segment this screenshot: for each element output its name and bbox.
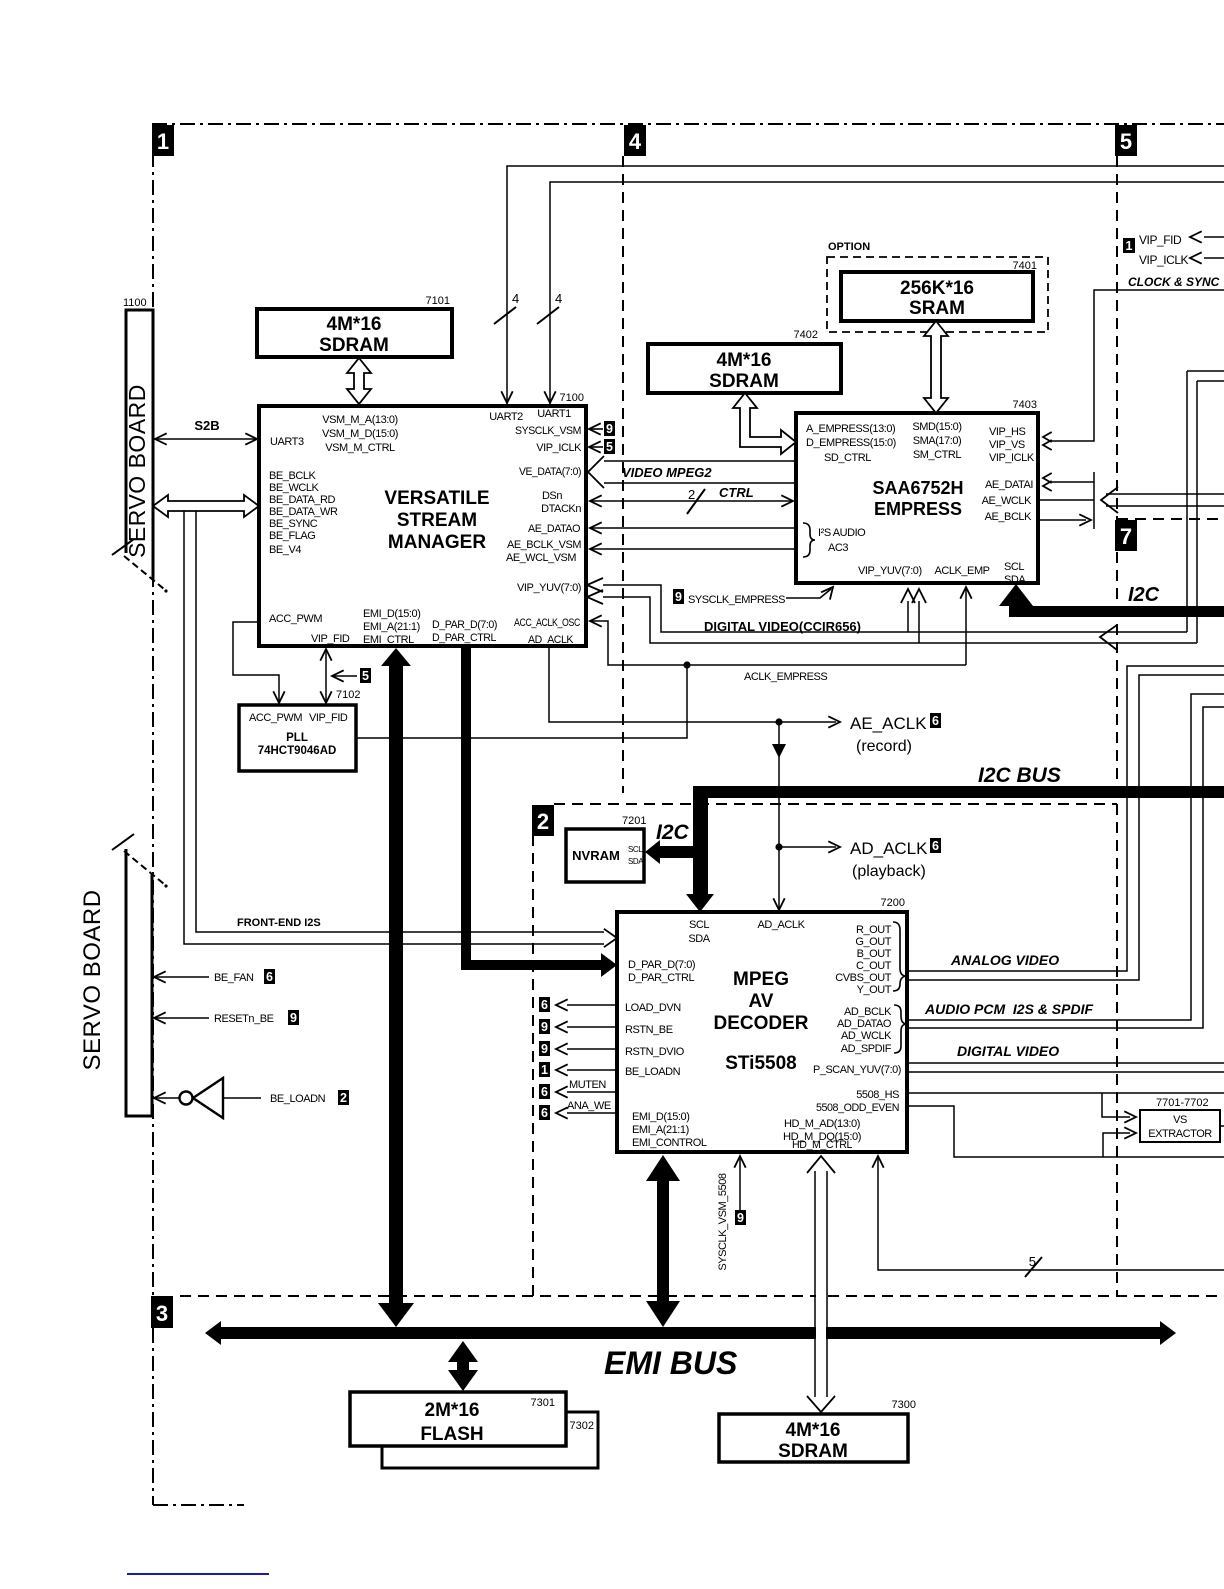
svg-text:4: 4: [555, 291, 562, 306]
wire AE_DATAO: [592, 527, 796, 529]
sram U7401 256K*16: [841, 272, 1033, 321]
bus D_PAR VSM to MPEG: [461, 646, 617, 977]
ref 1 box VIP_FID: [1123, 238, 1135, 253]
sdram U7101 4M*16: [257, 309, 452, 357]
svg-text:1: 1: [541, 1063, 548, 1077]
svg-text:AE_WCL_VSM: AE_WCL_VSM: [506, 552, 576, 564]
section divider dashed x=1117: [1116, 156, 1118, 1296]
wire VIP_YUV lower (digital video): [603, 597, 1197, 643]
svg-text:VIP_ICLK: VIP_ICLK: [1139, 253, 1189, 267]
svg-text:VERSATILE: VERSATILE: [384, 488, 489, 509]
svg-text:BE_FLAG: BE_FLAG: [269, 530, 315, 542]
servo board lower break dot: [164, 884, 167, 887]
svg-text:4M*16: 4M*16: [327, 314, 382, 335]
svg-text:SDA: SDA: [1004, 574, 1026, 586]
svg-text:1100: 1100: [123, 297, 147, 309]
wire MUTEN ref 6 y=1092: [567, 1091, 617, 1093]
svg-text:5508_ODD_EVEN: 5508_ODD_EVEN: [816, 1102, 899, 1114]
wire up to ACLK_EMP pin: [965, 589, 967, 665]
svg-text:VE_DATA(7:0): VE_DATA(7:0): [519, 466, 581, 478]
flash U7302: [382, 1412, 598, 1468]
svg-text:SCL: SCL: [1004, 561, 1024, 573]
wire SYSCLK_VSM_5508 ref 9: [739, 1158, 741, 1211]
svg-text:AE_WCLK: AE_WCLK: [982, 495, 1033, 507]
bus I2C BUS: [694, 786, 1224, 798]
svg-text:AD_WCLK: AD_WCLK: [841, 1030, 892, 1042]
wire analog video 2: [907, 675, 1224, 980]
svg-text:I2C BUS: I2C BUS: [978, 764, 1061, 787]
svg-text:DTACKn: DTACKn: [541, 503, 581, 515]
svg-text:SYSCLK_EMPRESS: SYSCLK_EMPRESS: [688, 594, 785, 606]
wire SAA VIP_YUV tap upper: [907, 601, 909, 632]
svg-text:7401: 7401: [1013, 260, 1037, 272]
svg-text:5: 5: [362, 669, 369, 683]
svg-text:D_PAR_CTRL: D_PAR_CTRL: [628, 972, 695, 984]
bus EMI MPEG to EMI BUS: [646, 1155, 680, 1327]
svg-text:D_PAR_D(7:0): D_PAR_D(7:0): [432, 619, 497, 631]
svg-text:9: 9: [606, 422, 613, 436]
brace analog outs: [893, 922, 906, 991]
svg-text:VIP_FID: VIP_FID: [311, 633, 350, 645]
svg-text:VIP_ICLK: VIP_ICLK: [989, 452, 1035, 464]
wire PLL to ACLK_EMPRESS: [356, 665, 687, 738]
SAA pin labels: [806, 421, 1035, 586]
wire AD_ACLK (playback): [779, 846, 836, 848]
svg-text:9: 9: [737, 1211, 744, 1225]
svg-text:BE_V4: BE_V4: [269, 544, 301, 556]
svg-text:(playback): (playback): [852, 863, 926, 880]
wires digital video out: [907, 1062, 1224, 1064]
svg-text:5508_HS: 5508_HS: [856, 1089, 899, 1101]
svg-text:SYSCLK_VSM: SYSCLK_VSM: [515, 425, 581, 437]
wire ACC_ACLK_OSC / ACLK_EMPRESS: [592, 621, 966, 665]
svg-text:VIP_HS: VIP_HS: [989, 426, 1026, 438]
svg-text:DECODER: DECODER: [713, 1013, 808, 1034]
section 7 top dashed boundary: [1117, 518, 1224, 520]
svg-text:ANALOG VIDEO: ANALOG VIDEO: [950, 952, 1059, 968]
svg-text:AUDIO PCM I2S & SPDIF: AUDIO PCM I2S & SPDIF: [924, 1001, 1093, 1017]
svg-text:D_PAR_CTRL: D_PAR_CTRL: [432, 632, 496, 644]
wire UART1 to top edge: [550, 182, 1224, 404]
block U7100 Versatile Stream Manager: [259, 406, 586, 646]
svg-text:HD_M_CTRL: HD_M_CTRL: [792, 1139, 852, 1151]
svg-text:C_OUT: C_OUT: [856, 960, 892, 972]
svg-text:SAA6752H: SAA6752H: [872, 478, 963, 498]
svg-text:7101: 7101: [426, 295, 450, 307]
svg-text:SMA(17:0): SMA(17:0): [913, 435, 962, 447]
svg-text:3: 3: [156, 1301, 168, 1326]
svg-text:ACLK_EMP: ACLK_EMP: [934, 565, 989, 577]
svg-text:SDA: SDA: [628, 857, 644, 866]
svg-text:MANAGER: MANAGER: [388, 532, 486, 553]
wire VIP_FID VSM-PLL: [325, 650, 327, 701]
svg-text:SYSCLK_VSM_5508: SYSCLK_VSM_5508: [717, 1173, 729, 1271]
wire AE_BCLK: [1038, 519, 1086, 521]
svg-text:SD_CTRL: SD_CTRL: [824, 452, 871, 464]
bus I2C to right edge: [1013, 606, 1224, 617]
section label 5: [1115, 125, 1137, 156]
svg-text:BE_LOADN: BE_LOADN: [625, 1066, 681, 1078]
wire AD_ACLK vertical: [778, 722, 780, 908]
wire mpeg ctl ref 9 y=1049: [567, 1048, 617, 1050]
wire AE_ACLK (record): [779, 721, 836, 723]
wire 5508_ODD_EVEN to VS extractor: [907, 1106, 1224, 1157]
svg-text:BE_DATA_WR: BE_DATA_WR: [269, 506, 338, 518]
servo board connector lower: [79, 849, 152, 1116]
svg-text:LOAD_DVN: LOAD_DVN: [625, 1002, 681, 1014]
arrowhead AD_ACLK into MPEG: [773, 898, 784, 910]
svg-text:6: 6: [266, 970, 273, 984]
svg-text:6: 6: [932, 714, 939, 728]
svg-text:PLL: PLL: [286, 732, 308, 744]
wire ANA_WE ref 6 y=1113: [567, 1112, 617, 1114]
wire ACC_PWM to PLL: [233, 622, 279, 701]
wire digital video up to right edge lower: [1196, 381, 1198, 643]
servo board upper break mark dashed: [124, 556, 164, 589]
svg-text:EMI_A(21:1): EMI_A(21:1): [363, 621, 420, 633]
wire mpeg ctl ref 9 y=1027: [567, 1026, 617, 1028]
svg-text:74HCT9046AD: 74HCT9046AD: [258, 745, 337, 757]
svg-text:5: 5: [1029, 1254, 1036, 1269]
svg-text:1: 1: [157, 129, 169, 154]
svg-text:6: 6: [932, 839, 939, 853]
wire audio pcm 2: [907, 707, 1224, 1028]
wire AD_ACLK from VSM: [549, 648, 777, 722]
section 3 top dashed boundary: [180, 1295, 1224, 1297]
svg-text:7201: 7201: [622, 815, 646, 827]
svg-text:VIP_YUV(7:0): VIP_YUV(7:0): [858, 565, 922, 577]
frame dash-dot bottom-left stub: [153, 1504, 244, 1506]
section label 1: [152, 125, 174, 156]
svg-text:AE_DATAO: AE_DATAO: [528, 523, 581, 535]
servo board upper break mark solid: [112, 539, 134, 555]
bus width 4 marker UART2: [494, 307, 516, 324]
flow arrow down: [772, 744, 786, 758]
section label 3: [151, 1296, 173, 1328]
section 2 left dashed boundary: [532, 835, 534, 1296]
svg-text:EMPRESS: EMPRESS: [874, 499, 962, 519]
svg-text:FLASH: FLASH: [420, 1424, 483, 1445]
svg-text:Y_OUT: Y_OUT: [857, 984, 892, 996]
svg-text:EMI_A(21:1): EMI_A(21:1): [632, 1124, 689, 1136]
svg-text:2M*16: 2M*16: [425, 1400, 480, 1421]
svg-text:6: 6: [541, 1106, 548, 1120]
wire CTRL DSn/DTACKn: [592, 500, 792, 502]
svg-text:4: 4: [629, 129, 642, 154]
svg-text:BE_BCLK: BE_BCLK: [269, 470, 316, 482]
svg-text:A_EMPRESS(13:0): A_EMPRESS(13:0): [806, 423, 895, 435]
svg-text:BE_LOADN: BE_LOADN: [270, 1093, 326, 1105]
svg-text:OPTION: OPTION: [828, 241, 870, 253]
junction AE_ACLK: [775, 718, 782, 725]
svg-text:STi5508: STi5508: [725, 1053, 796, 1074]
svg-text:2: 2: [688, 487, 695, 502]
block U7403 SAA6752H Empress: [796, 413, 1038, 583]
section label 7: [1115, 520, 1137, 551]
wire front-end I2S upper: [196, 511, 604, 932]
svg-text:SM_CTRL: SM_CTRL: [913, 449, 962, 461]
bus arrow I2C into SAA SCL/SDA: [999, 584, 1033, 617]
svg-text:MUTEN: MUTEN: [569, 1079, 606, 1091]
svg-text:VSM_M_A(13:0): VSM_M_A(13:0): [322, 414, 397, 426]
wire UART2 to top edge: [507, 166, 1224, 404]
svg-text:BE_WCLK: BE_WCLK: [269, 482, 320, 494]
bus arrow SAA A_EMPRESS/D_EMPRESS to SDRAM 7402: [733, 393, 796, 454]
svg-text:7301: 7301: [531, 1397, 555, 1409]
svg-text:CLOCK & SYNC: CLOCK & SYNC: [1128, 275, 1220, 289]
VSM pin labels: [269, 408, 582, 646]
svg-text:VIP_FID: VIP_FID: [1139, 233, 1182, 247]
wire SAA VIP_YUV tap lower: [918, 601, 920, 643]
wire mpeg ctl ref 6 y=1005: [567, 1004, 617, 1006]
svg-text:VSM_M_D(15:0): VSM_M_D(15:0): [322, 428, 398, 440]
svg-text:VSM_M_CTRL: VSM_M_CTRL: [325, 442, 395, 454]
svg-text:SCL: SCL: [689, 919, 709, 931]
svg-text:AD_ACLK: AD_ACLK: [850, 839, 928, 858]
svg-text:4M*16: 4M*16: [786, 1420, 841, 1441]
svg-text:SRAM: SRAM: [909, 298, 965, 319]
svg-text:7403: 7403: [1013, 399, 1037, 411]
servo board upper break dot: [164, 589, 167, 592]
bus HD_M MPEG to SDRAM 7300: [816, 1160, 826, 1400]
svg-text:I2C: I2C: [656, 821, 690, 844]
svg-text:CTRL: CTRL: [719, 485, 754, 500]
svg-text:SDRAM: SDRAM: [778, 1441, 848, 1462]
svg-text:7300: 7300: [892, 1399, 916, 1411]
svg-text:UART2: UART2: [489, 411, 523, 423]
arrowhead front-end I2S into MPEG: [604, 929, 617, 947]
wire audio pcm 1: [907, 694, 1224, 1020]
svg-text:AD_ACLK: AD_ACLK: [528, 634, 574, 646]
svg-text:RSTN_DVIO: RSTN_DVIO: [625, 1046, 685, 1058]
svg-text:RSTN_BE: RSTN_BE: [625, 1024, 673, 1036]
svg-text:VIP_ICLK: VIP_ICLK: [536, 442, 582, 454]
bus I2C down to MPEG SCL/SDA: [686, 786, 714, 912]
brace audio outs: [894, 1005, 907, 1053]
dashed OPTION box: [827, 257, 1048, 332]
svg-text:P_SCAN_YUV(7:0): P_SCAN_YUV(7:0): [813, 1064, 901, 1076]
svg-text:VS: VS: [1173, 1114, 1187, 1126]
svg-text:FRONT-END I2S: FRONT-END I2S: [237, 917, 321, 929]
svg-text:7701-7702: 7701-7702: [1156, 1097, 1209, 1109]
wire 5-bit to right edge: [878, 1158, 1224, 1270]
svg-text:SERVO BOARD: SERVO BOARD: [79, 889, 106, 1070]
svg-text:VIP_VS: VIP_VS: [989, 439, 1025, 451]
wire 5508_HS to VS extractor: [907, 1092, 1224, 1094]
svg-text:D_EMPRESS(15:0): D_EMPRESS(15:0): [806, 437, 896, 449]
svg-text:EMI_CTRL: EMI_CTRL: [363, 634, 414, 646]
bus arrow VSM to SDRAM 7101: [347, 358, 371, 404]
svg-text:ACC_PWM: ACC_PWM: [269, 613, 322, 625]
svg-text:B_OUT: B_OUT: [857, 948, 892, 960]
svg-text:BE_DATA_RD: BE_DATA_RD: [269, 494, 336, 506]
svg-text:2: 2: [340, 1091, 347, 1105]
svg-text:AC3: AC3: [828, 542, 848, 554]
svg-text:HD_M_AD(13:0): HD_M_AD(13:0): [784, 1118, 860, 1130]
wire mpeg ctl ref 1 y=1070: [567, 1069, 617, 1071]
wire AE_DATAI: [1048, 481, 1094, 483]
svg-text:VIDEO MPEG2: VIDEO MPEG2: [622, 465, 712, 480]
svg-text:SCL: SCL: [628, 845, 643, 854]
wire VIP_ICLK ref 5: [590, 446, 603, 448]
svg-text:I²S AUDIO: I²S AUDIO: [818, 527, 866, 539]
section label 2: [532, 805, 554, 836]
svg-text:D_PAR_D(7:0): D_PAR_D(7:0): [628, 959, 695, 971]
svg-text:9: 9: [675, 590, 682, 604]
svg-text:6: 6: [541, 1085, 548, 1099]
svg-text:I2C: I2C: [1128, 584, 1160, 606]
bus EMI VSM to EMI BUS: [378, 648, 414, 1327]
svg-text:256K*16: 256K*16: [900, 278, 974, 299]
bus BE_ servo to VSM: [153, 495, 259, 517]
svg-text:AD_DATAO: AD_DATAO: [837, 1018, 892, 1030]
svg-text:AE_DATAI: AE_DATAI: [985, 479, 1033, 491]
svg-text:7100: 7100: [560, 392, 584, 404]
svg-text:5: 5: [606, 440, 613, 454]
svg-text:AE_ACLK: AE_ACLK: [850, 714, 927, 733]
nvram U7201: [566, 829, 644, 882]
svg-text:ANA_WE: ANA_WE: [567, 1100, 611, 1112]
wire AE bracket vertical: [1093, 472, 1095, 529]
svg-text:7200: 7200: [881, 897, 905, 909]
svg-text:7302: 7302: [570, 1420, 594, 1432]
svg-text:SMD(15:0): SMD(15:0): [912, 421, 961, 433]
svg-text:UART1: UART1: [537, 408, 571, 420]
svg-text:7102: 7102: [336, 689, 360, 701]
svg-text:6: 6: [541, 998, 548, 1012]
svg-text:EMI_CONTROL: EMI_CONTROL: [632, 1137, 707, 1149]
section divider dashed x=623: [622, 156, 624, 793]
wire front-end I2S lower: [184, 511, 604, 944]
sdram U7300 4M*16: [719, 1414, 908, 1462]
section label 4: [624, 125, 646, 156]
junction ACLK_EMPRESS/PLL: [683, 661, 690, 668]
svg-text:SDRAM: SDRAM: [709, 371, 779, 392]
flash U7301 2M*16: [350, 1392, 566, 1446]
svg-text:2: 2: [537, 809, 549, 834]
svg-text:DSn: DSn: [542, 490, 562, 502]
svg-text:AE_BCLK: AE_BCLK: [985, 511, 1032, 523]
bus EMI to FLASH: [448, 1341, 478, 1391]
svg-text:EMI BUS: EMI BUS: [604, 1345, 738, 1381]
svg-text:9: 9: [290, 1011, 297, 1025]
servo board lower break mark solid: [112, 834, 134, 850]
junction AD_ACLK: [775, 843, 782, 850]
svg-text:R_OUT: R_OUT: [856, 924, 892, 936]
svg-text:SERVO BOARD: SERVO BOARD: [124, 384, 150, 558]
svg-text:STREAM: STREAM: [397, 510, 477, 531]
inverter + wire BE_LOADN: [193, 1078, 223, 1118]
svg-text:ACC_PWM: ACC_PWM: [249, 712, 302, 724]
section 2 top dashed boundary: [554, 803, 1117, 805]
wire VIP_YUV upper (digital video): [603, 585, 1187, 632]
bus EMI BUS main: [205, 1321, 1176, 1345]
wire AE_BCLK_VSM / AE_WCL_VSM: [592, 548, 796, 550]
blue underline artifact: [127, 1573, 269, 1575]
svg-text:EXTRACTOR: EXTRACTOR: [1148, 1128, 1212, 1140]
bus arrow SAA to SRAM: [924, 321, 948, 413]
servo board connector upper (1100): [123, 297, 153, 580]
block U7701-7702 VS Extractor: [1140, 1110, 1220, 1142]
servo board lower break mark dashed: [124, 851, 164, 884]
sdram U7402 4M*16: [648, 344, 841, 393]
svg-text:CVBS_OUT: CVBS_OUT: [835, 972, 891, 984]
svg-text:SDA: SDA: [688, 933, 710, 945]
svg-text:4M*16: 4M*16: [717, 350, 772, 371]
pll U7102 74HCT9046AD: [239, 705, 356, 771]
wire clock&sync to SAA VIP_HS/VIP_VS: [1048, 290, 1224, 441]
svg-text:1: 1: [1126, 239, 1133, 253]
wire VIP_FID ref 5: [360, 668, 371, 683]
svg-text:AD_BCLK: AD_BCLK: [844, 1006, 892, 1018]
svg-text:UART3: UART3: [270, 436, 304, 448]
frame dash-dot left border: [152, 124, 154, 1505]
svg-text:ACC_ACLK_OSC: ACC_ACLK_OSC: [514, 617, 580, 629]
svg-text:(record): (record): [856, 738, 912, 755]
bus width 4 marker UART1: [537, 307, 559, 324]
svg-text:7402: 7402: [794, 329, 818, 341]
wire SYSCLK_VSM ref 9: [590, 428, 603, 430]
frame dash-dot top border: [152, 123, 1224, 125]
svg-text:AV: AV: [749, 991, 774, 1012]
wire analog video 1: [907, 666, 1224, 971]
arrowhead digital video into section 5: [1100, 625, 1117, 650]
svg-text:S2B: S2B: [194, 418, 219, 433]
wire SYSCLK_EMPRESS ref 9: [673, 589, 684, 604]
bus AE audio from right edge: [1106, 493, 1224, 495]
wire S2B servo to VSM: [153, 438, 259, 440]
wire AE_WCLK: [1040, 499, 1094, 501]
svg-text:SDRAM: SDRAM: [319, 335, 389, 356]
bus I2C arm to NVRAM: [645, 840, 694, 864]
wire BE_FAN: [152, 976, 209, 978]
svg-text:4: 4: [512, 291, 519, 306]
svg-text:EMI_D(15:0): EMI_D(15:0): [632, 1111, 689, 1123]
svg-text:9: 9: [541, 1042, 548, 1056]
svg-text:BE_FAN: BE_FAN: [214, 972, 254, 984]
block U7200 MPEG AV Decoder STi5508: [617, 912, 907, 1152]
wire RESETn_BE: [152, 1017, 209, 1019]
svg-text:DIGITAL VIDEO: DIGITAL VIDEO: [957, 1043, 1059, 1059]
svg-text:ACLK_EMPRESS: ACLK_EMPRESS: [744, 671, 827, 683]
wire digital video up to right edge upper: [1186, 371, 1188, 632]
svg-text:NVRAM: NVRAM: [572, 848, 620, 863]
svg-text:MPEG: MPEG: [733, 969, 789, 990]
svg-text:VIP_YUV(7:0): VIP_YUV(7:0): [517, 582, 581, 594]
svg-text:7: 7: [1120, 524, 1132, 549]
svg-text:EMI_D(15:0): EMI_D(15:0): [363, 608, 420, 620]
svg-text:AD_SPDIF: AD_SPDIF: [841, 1043, 892, 1055]
svg-text:9: 9: [541, 1020, 548, 1034]
bus VIDEO MPEG2 VE_DATA: [604, 460, 796, 462]
svg-text:AE_BCLK_VSM: AE_BCLK_VSM: [507, 539, 581, 551]
svg-text:BE_SYNC: BE_SYNC: [269, 518, 318, 530]
brace I2S AUDIO AC3: [803, 523, 815, 557]
svg-text:RESETn_BE: RESETn_BE: [214, 1013, 274, 1025]
MPEG pin labels: [625, 919, 901, 1151]
svg-text:G_OUT: G_OUT: [855, 936, 891, 948]
svg-text:VIP_FID: VIP_FID: [309, 712, 348, 724]
svg-text:5: 5: [1120, 129, 1132, 154]
svg-text:AD_ACLK: AD_ACLK: [758, 919, 806, 931]
